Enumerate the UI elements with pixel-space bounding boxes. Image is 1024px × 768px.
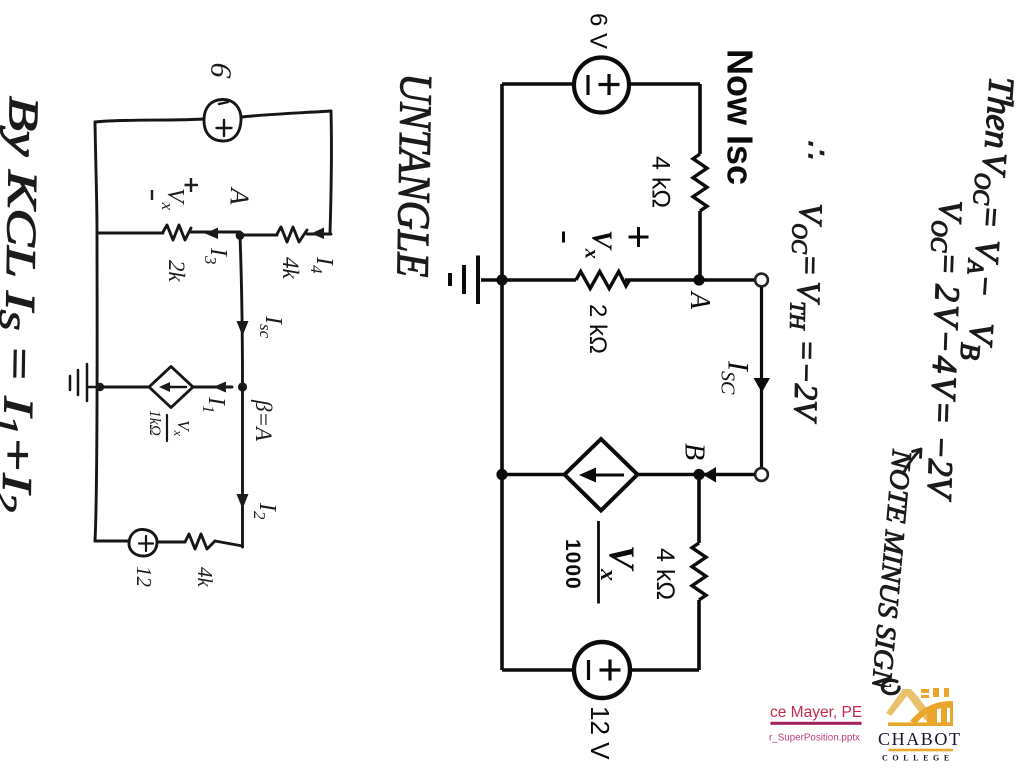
dependent source U1 diamond — [565, 439, 638, 511]
logo top small dark blocks — [921, 689, 929, 693]
node B — [693, 469, 704, 480]
arrow I1 head — [213, 382, 226, 393]
svg-text:∴: ∴ — [799, 139, 832, 159]
source sketch 12 ellipse — [129, 529, 157, 556]
wire from V1 to top-right corner — [629, 82, 700, 86]
node sketch A dot — [236, 231, 245, 240]
label minus for Vx — [562, 232, 565, 243]
arrow Isc head sketch — [237, 321, 249, 336]
fraction bar of Vx/1000 — [597, 521, 600, 604]
node A — [693, 274, 704, 285]
Isc arrow head — [754, 378, 771, 393]
svg-text:6: 6 — [204, 61, 238, 79]
node at left rail row B — [496, 469, 507, 480]
resistor R3 4k zigzag — [692, 543, 706, 600]
resistor R1 4k zigzag — [693, 154, 707, 211]
svg-text:r_SuperPosition.pptx: r_SuperPosition.pptx — [769, 733, 860, 744]
wire bottom middle row — [502, 473, 564, 477]
wire R1 to node A — [698, 211, 702, 280]
svg-text:Now Isc: Now Isc — [720, 49, 761, 185]
svg-text:2k: 2k — [164, 260, 189, 283]
wire sketch bottom row — [95, 541, 243, 546]
arrow I3 head — [205, 228, 218, 240]
wire node B down — [697, 480, 701, 543]
V1 plus sign — [599, 74, 620, 95]
resistor R2 2k zigzag — [576, 272, 629, 289]
resistor sketch 4k bottom — [185, 534, 215, 549]
logo base strip — [888, 722, 953, 726]
handwritten curl over logo — [882, 680, 899, 693]
wire sketch row2 — [97, 232, 331, 235]
wire sketch row3 right — [193, 386, 232, 389]
arrow into node B — [703, 467, 716, 483]
svg-text:2 kΩ: 2 kΩ — [584, 304, 611, 354]
label plus Vx sketch — [185, 178, 199, 192]
wire left rail — [500, 84, 504, 670]
arrow I4 head — [311, 228, 324, 240]
U1 arrow — [592, 474, 624, 477]
svg-text:12: 12 — [132, 566, 156, 588]
svg-text:1kΩ: 1kΩ — [146, 410, 163, 436]
fraction bar sketch Vx/1k — [166, 415, 168, 441]
svg-text:4 kΩ: 4 kΩ — [647, 156, 675, 208]
voltage source V1 6V — [574, 58, 629, 113]
svg-text:UNTANGLE: UNTANGLE — [387, 73, 442, 278]
svg-text:ce Mayer, PE: ce Mayer, PE — [770, 704, 862, 721]
sketch source plus — [217, 120, 232, 136]
wire top from rail to source V1 — [502, 82, 574, 86]
chabot gold bar — [889, 749, 954, 752]
label plus for Vx — [629, 227, 649, 247]
wire sketch row3 left — [100, 386, 149, 389]
dependent source sketch diamond — [149, 367, 193, 408]
logo roof light gold band — [886, 689, 932, 721]
svg-text:4k: 4k — [193, 567, 217, 588]
terminal B open circle — [755, 468, 768, 481]
V2 plus sign — [600, 660, 621, 681]
svg-text:CHABOT: CHABOT — [878, 729, 962, 749]
svg-text:By KCL IS = I1+I2: By KCL IS = I1+I2 — [0, 96, 46, 513]
svg-text:12 V: 12 V — [585, 706, 615, 760]
svg-text:=−2V: =−2V — [787, 339, 824, 425]
wire sketch right column — [330, 111, 331, 233]
wire sketch node A down — [240, 236, 243, 388]
wire sketch left rail — [95, 122, 97, 541]
sketch source bar — [219, 102, 228, 104]
svg-text:1000: 1000 — [561, 539, 584, 590]
chabot logo graphic — [885, 687, 953, 726]
wire sketch top right — [241, 111, 331, 117]
arrow I2 head sketch — [237, 494, 249, 509]
svg-text:4 kΩ: 4 kΩ — [651, 548, 679, 600]
label minus Vx sketch — [151, 190, 153, 200]
resistor sketch 4k row2 — [277, 227, 307, 242]
svg-text:Then: Then — [977, 75, 1022, 150]
svg-text:A: A — [684, 290, 715, 310]
node sketch B dot — [238, 382, 247, 391]
wire sketch node B down — [241, 387, 244, 547]
svg-text:2V−4V=: 2V−4V= — [923, 284, 967, 428]
wire right rail between terminals — [760, 287, 763, 468]
voltage source V2 12V — [574, 642, 630, 698]
wire R3 to bottom corner — [630, 600, 699, 670]
wire diamond to node B — [638, 473, 756, 477]
footer underline — [771, 722, 862, 725]
svg-text:COLLEGE: COLLEGE — [882, 754, 954, 763]
wire V2 to left rail — [502, 668, 574, 672]
node sketch ground junction — [96, 383, 104, 391]
V1 minus sign — [586, 75, 589, 95]
svg-text:−2V: −2V — [920, 435, 961, 502]
logo columns dark gold — [927, 708, 937, 726]
logo arch dark gold — [910, 701, 953, 724]
ground sketch — [70, 364, 100, 401]
source sketch 6V ellipse — [204, 99, 241, 141]
sketch diamond arrow — [166, 386, 186, 388]
svg-text:6 V: 6 V — [585, 13, 612, 49]
wire main middle horizontal — [481, 278, 755, 282]
svg-text:β=A: β=A — [251, 399, 276, 442]
note arrow — [904, 449, 921, 472]
svg-text:A: A — [224, 186, 255, 206]
terminal A open circle — [755, 274, 768, 287]
node at ground junction — [496, 274, 507, 285]
V2 minus sign — [587, 660, 590, 680]
wire right column upper — [698, 84, 702, 154]
logo light tower mid — [908, 692, 931, 720]
svg-text:B: B — [679, 443, 710, 460]
sketch source12 plus — [139, 536, 153, 551]
wire sketch top left — [95, 119, 203, 122]
svg-text:4k: 4k — [278, 257, 303, 280]
resistor sketch 2k — [163, 225, 191, 240]
ground — [450, 256, 478, 305]
